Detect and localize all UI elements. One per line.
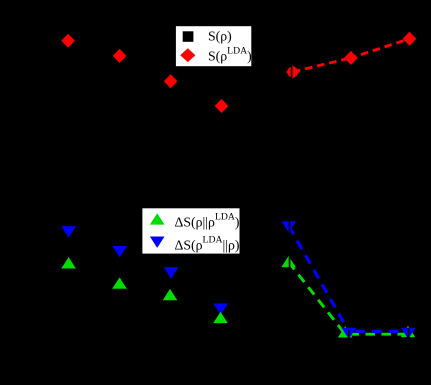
bottom inset blue dashed line flat segment	[349, 330, 413, 333]
red diamond point 7	[403, 32, 417, 46]
bottom legend blue down-triangle marker	[150, 237, 165, 248]
green up-triangle 7 (right end)	[401, 326, 416, 337]
blue down-triangle 1	[61, 226, 76, 237]
bottom inset blue dashed line descending segment	[289, 226, 349, 331]
blue down-triangle 6 (bend)	[342, 328, 357, 339]
blue down-triangle 4	[213, 304, 228, 315]
blue down-triangle 7 (right end)	[401, 328, 416, 339]
green up-triangle 1	[61, 257, 76, 268]
black frame slit over green triangle 5	[289, 256, 291, 268]
top legend black square marker	[183, 31, 194, 42]
bottom legend green up-triangle marker	[150, 213, 165, 224]
black tick slit at bend cluster	[348, 330, 350, 339]
black frame slit over blue triangle 5	[289, 221, 291, 233]
bottom legend box	[142, 208, 240, 255]
red diamond point 5 (circled)	[286, 65, 299, 79]
top inset red dashed line segment 2	[351, 39, 410, 58]
blue down-triangle 2	[112, 246, 127, 257]
red diamond point 1	[61, 34, 75, 48]
red circle marker over point 5	[287, 67, 298, 78]
red diamond point 6	[344, 51, 358, 65]
blue down-triangle 5	[282, 221, 297, 232]
green up-triangle 5	[281, 256, 296, 267]
red diamond point 2	[113, 49, 127, 63]
black frame slit over circled diamond	[291, 64, 293, 81]
top inset red dashed line segment 1	[293, 58, 351, 72]
top legend box	[175, 26, 252, 67]
svg-text:S(ρ): S(ρ)	[208, 28, 232, 44]
top legend red diamond marker	[180, 48, 195, 62]
black tick slit at right-end cluster	[408, 328, 410, 340]
green up-triangle 2	[112, 277, 127, 288]
red diamond point 4	[215, 99, 229, 113]
green up-triangle 4	[213, 312, 228, 323]
green up-triangle 3	[163, 289, 178, 300]
blue down-triangle 3	[164, 267, 179, 278]
bottom inset green dashed line	[289, 262, 413, 334]
red diamond point 3	[164, 74, 178, 88]
green up-triangle 6 (bend)	[338, 326, 353, 337]
